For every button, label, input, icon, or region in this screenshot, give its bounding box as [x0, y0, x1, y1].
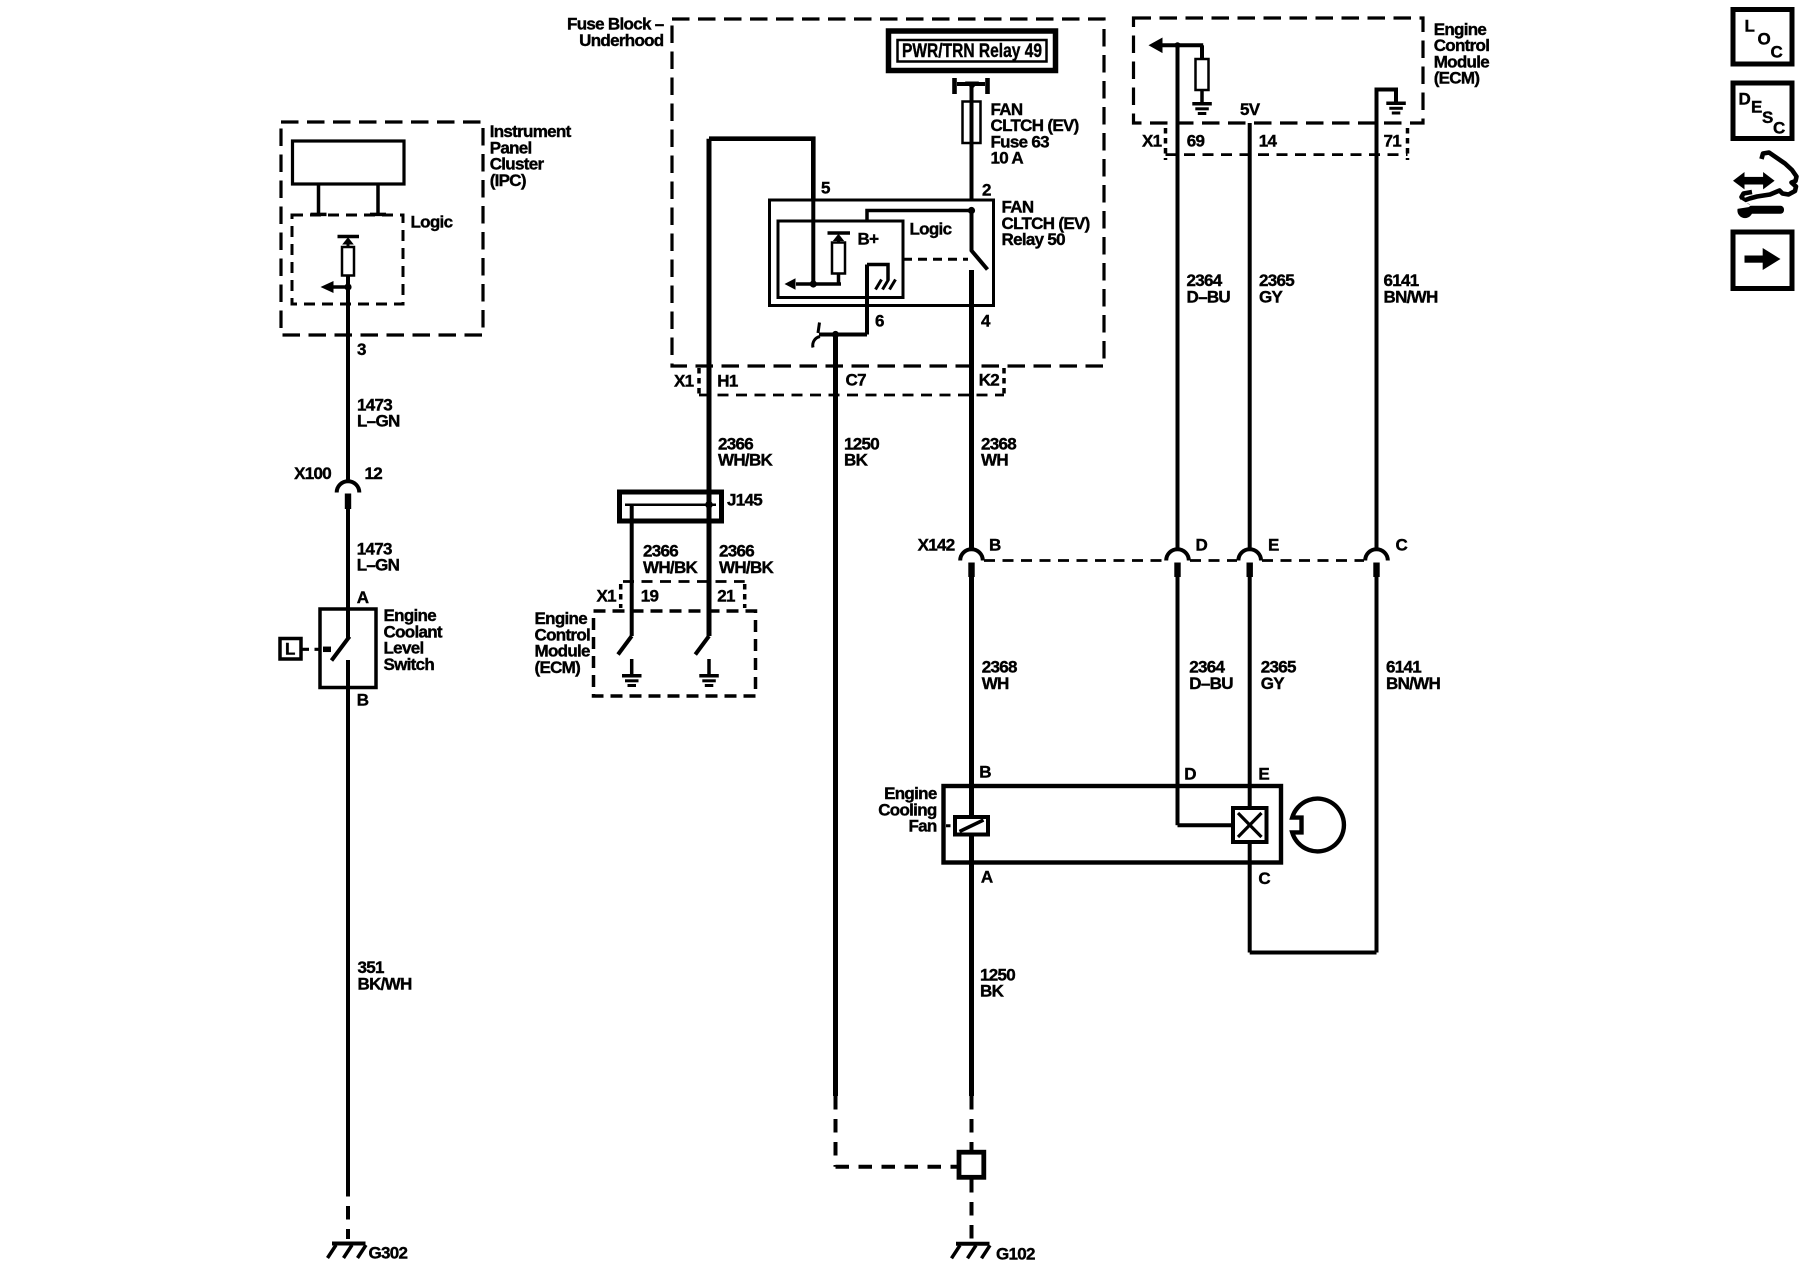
svg-text:GY: GY [1261, 674, 1286, 693]
svg-text:4: 4 [981, 312, 991, 331]
svg-text:S: S [1762, 108, 1773, 127]
svg-text:C: C [1396, 536, 1408, 555]
svg-text:5: 5 [821, 179, 830, 198]
svg-text:C7: C7 [846, 371, 867, 390]
svg-text:H1: H1 [717, 371, 738, 390]
svg-text:21: 21 [717, 587, 735, 606]
svg-text:Logic: Logic [910, 220, 952, 239]
svg-text:K2: K2 [979, 371, 1000, 390]
svg-text:X142: X142 [918, 536, 955, 555]
svg-text:(ECM): (ECM) [1434, 69, 1480, 88]
svg-text:PWR/TRN Relay 49: PWR/TRN Relay 49 [902, 41, 1042, 62]
svg-text:Relay 50: Relay 50 [1002, 230, 1066, 249]
svg-text:B+: B+ [858, 230, 880, 249]
svg-text:71: 71 [1384, 131, 1402, 150]
svg-text:BK: BK [980, 982, 1005, 1001]
svg-text:6: 6 [875, 312, 884, 331]
svg-text:L–GN: L–GN [357, 555, 400, 574]
svg-text:C: C [1258, 869, 1270, 888]
svg-text:L: L [1745, 17, 1755, 36]
svg-text:BN/WH: BN/WH [1384, 287, 1439, 306]
svg-text:14: 14 [1259, 131, 1278, 150]
svg-text:B: B [979, 763, 991, 782]
svg-text:C: C [1773, 119, 1785, 138]
svg-text:Switch: Switch [384, 655, 435, 674]
svg-text:10 A: 10 A [991, 149, 1024, 168]
svg-text:WH: WH [981, 451, 1008, 470]
svg-text:D: D [1184, 765, 1196, 784]
svg-text:BN/WH: BN/WH [1386, 674, 1441, 693]
svg-text:D–BU: D–BU [1187, 287, 1231, 306]
svg-text:(IPC): (IPC) [490, 171, 526, 190]
svg-text:X1: X1 [674, 371, 694, 390]
svg-text:Underhood: Underhood [579, 31, 664, 50]
svg-text:X1: X1 [597, 587, 617, 606]
svg-text:E: E [1258, 765, 1269, 784]
svg-text:G102: G102 [996, 1244, 1035, 1263]
svg-text:Logic: Logic [411, 212, 453, 231]
svg-text:Fan: Fan [908, 817, 936, 836]
svg-text:GY: GY [1259, 287, 1284, 306]
svg-text:A: A [357, 588, 369, 607]
svg-text:5V: 5V [1240, 100, 1261, 119]
svg-text:69: 69 [1187, 131, 1205, 150]
svg-text:WH: WH [982, 674, 1009, 693]
svg-text:19: 19 [641, 587, 659, 606]
svg-text:WH/BK: WH/BK [718, 451, 774, 470]
svg-text:L: L [285, 640, 295, 659]
svg-text:WH/BK: WH/BK [719, 558, 775, 577]
svg-text:X100: X100 [294, 464, 331, 483]
svg-text:BK/WH: BK/WH [358, 974, 413, 993]
svg-text:C: C [1771, 43, 1783, 62]
svg-text:3: 3 [357, 340, 366, 359]
svg-text:A: A [981, 868, 993, 887]
svg-text:D: D [1739, 90, 1751, 109]
svg-text:(ECM): (ECM) [535, 658, 581, 677]
svg-text:J145: J145 [727, 491, 762, 510]
svg-text:E: E [1268, 536, 1279, 555]
svg-text:BK: BK [844, 451, 869, 470]
svg-text:2: 2 [982, 181, 991, 200]
svg-text:O: O [1758, 30, 1771, 49]
svg-text:12: 12 [365, 464, 383, 483]
svg-text:L–GN: L–GN [357, 412, 400, 431]
svg-text:B: B [357, 691, 369, 710]
svg-text:G302: G302 [369, 1244, 408, 1263]
svg-text:WH/BK: WH/BK [643, 558, 699, 577]
svg-text:E: E [1751, 98, 1762, 117]
svg-text:D–BU: D–BU [1189, 674, 1233, 693]
svg-text:D: D [1196, 536, 1208, 555]
svg-text:X1: X1 [1142, 131, 1162, 150]
svg-text:B: B [989, 536, 1001, 555]
